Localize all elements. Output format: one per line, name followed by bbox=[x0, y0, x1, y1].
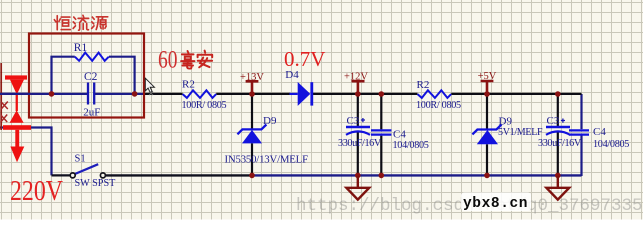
capacitor C4 bbox=[371, 130, 391, 134]
svg-text:C4: C4 bbox=[593, 126, 606, 138]
svg-text:C4: C4 bbox=[393, 129, 406, 141]
main rail junction dots bbox=[555, 91, 561, 97]
wire: mains top wire into box bbox=[0, 93, 87, 95]
capacitor C4#2 bbox=[569, 130, 589, 134]
zener diode D9#2 bbox=[477, 130, 498, 144]
svg-text:100R/ 0805: 100R/ 0805 bbox=[416, 100, 461, 111]
zener diode D9 bbox=[242, 130, 262, 143]
power port +13V bbox=[246, 81, 259, 93]
wire: bottom rail right segment bbox=[252, 174, 582, 176]
svg-text:C2: C2 bbox=[84, 71, 98, 83]
wire: R2#2 to +5V node bbox=[451, 93, 487, 95]
wire: D9#2 zener branch bbox=[486, 94, 488, 175]
wire: main rail +5V to right edge bbox=[486, 93, 582, 95]
wire: C3 branch bbox=[357, 94, 359, 175]
wire: R2 to D4 bbox=[216, 93, 290, 95]
svg-text:+13V: +13V bbox=[240, 72, 264, 83]
no-connect x mark 1 bbox=[1, 102, 8, 110]
svg-text:IN5350/13V/MELF: IN5350/13V/MELF bbox=[225, 154, 309, 166]
svg-text:104/0805: 104/0805 bbox=[393, 140, 429, 151]
svg-text:D9: D9 bbox=[499, 116, 513, 128]
red annotation: top T-bar down arrow bbox=[5, 75, 27, 94]
char heng bbox=[54, 16, 70, 30]
svg-text:R2: R2 bbox=[182, 79, 195, 91]
char an bbox=[198, 51, 213, 68]
wire: C3#2 branch bbox=[557, 94, 559, 175]
power port +12V bbox=[352, 81, 365, 93]
junction node right bbox=[132, 91, 138, 97]
wire: mains bottom wire to switch bbox=[0, 128, 52, 176]
capacitor C3#2 bbox=[546, 126, 570, 128]
svg-text:R1: R1 bbox=[74, 42, 88, 54]
svg-text:C3: C3 bbox=[347, 115, 360, 127]
svg-text:60: 60 bbox=[158, 47, 178, 74]
wire over arrow tip bbox=[0, 93, 30, 95]
svg-text:104/0805: 104/0805 bbox=[593, 139, 629, 150]
char yuan bbox=[92, 17, 108, 30]
wire: C2 right to box edge bbox=[95, 93, 145, 95]
svg-text:2uF: 2uF bbox=[83, 106, 100, 118]
capacitor C3 bbox=[346, 126, 370, 128]
title: constant current source (drawn CJK) bbox=[54, 15, 107, 30]
wire: D9 zener branch bbox=[251, 94, 253, 175]
wire: D4 to R2#2 bbox=[313, 93, 418, 95]
svg-text:330uF/16V: 330uF/16V bbox=[338, 138, 382, 149]
svg-text:S1: S1 bbox=[75, 154, 86, 165]
svg-text:ybx8.cn: ybx8.cn bbox=[463, 196, 528, 212]
ground symbol 1 bbox=[346, 176, 369, 200]
red annotation: opposing up arrow and down arrow with bar bbox=[3, 94, 31, 163]
wire: R1 loop left leg bbox=[52, 57, 75, 94]
resistor R2#2 bbox=[418, 90, 452, 98]
no-connect x mark 2 bbox=[1, 115, 8, 123]
svg-text:100R/ 0805: 100R/ 0805 bbox=[182, 100, 227, 111]
svg-text:5V1/MELF: 5V1/MELF bbox=[498, 127, 543, 138]
svg-text:+12V: +12V bbox=[344, 72, 368, 83]
svg-text:R2: R2 bbox=[417, 79, 430, 91]
wire: C4 branch bbox=[380, 94, 382, 175]
switch S1 bbox=[75, 164, 98, 174]
red left-edge line bbox=[0, 63, 2, 130]
capacitor C2 bbox=[88, 83, 94, 105]
char liu bbox=[73, 15, 88, 30]
wire: right edge vertical through C4 bbox=[580, 94, 582, 176]
svg-text:330uF/16V: 330uF/16V bbox=[538, 138, 582, 149]
wire: bottom rail left segment bbox=[105, 174, 252, 176]
svg-text:C3: C3 bbox=[547, 115, 560, 127]
wire: box to R2 bbox=[144, 93, 183, 95]
svg-text:SW SPST: SW SPST bbox=[75, 178, 117, 189]
wire: R1 loop right leg bbox=[109, 57, 135, 94]
diode D4 bbox=[290, 93, 298, 95]
wire: stub to switch pole bbox=[52, 174, 71, 176]
svg-text:+5V: +5V bbox=[478, 71, 497, 82]
svg-text:220V: 220V bbox=[10, 176, 63, 207]
resistor R2 bbox=[183, 90, 217, 98]
ground symbol 2 bbox=[546, 176, 569, 200]
svg-text:0.7V: 0.7V bbox=[284, 47, 325, 71]
mouse cursor bbox=[145, 78, 154, 95]
constant current source box bbox=[29, 34, 144, 118]
junction node left bbox=[49, 91, 55, 97]
svg-text:D9: D9 bbox=[263, 115, 277, 127]
char hao bbox=[181, 51, 194, 69]
power port +5V bbox=[481, 81, 494, 93]
rail junction dots bbox=[249, 173, 255, 179]
resistor R1 bbox=[75, 53, 109, 61]
ybx8.cn watermark label bbox=[461, 193, 531, 212]
